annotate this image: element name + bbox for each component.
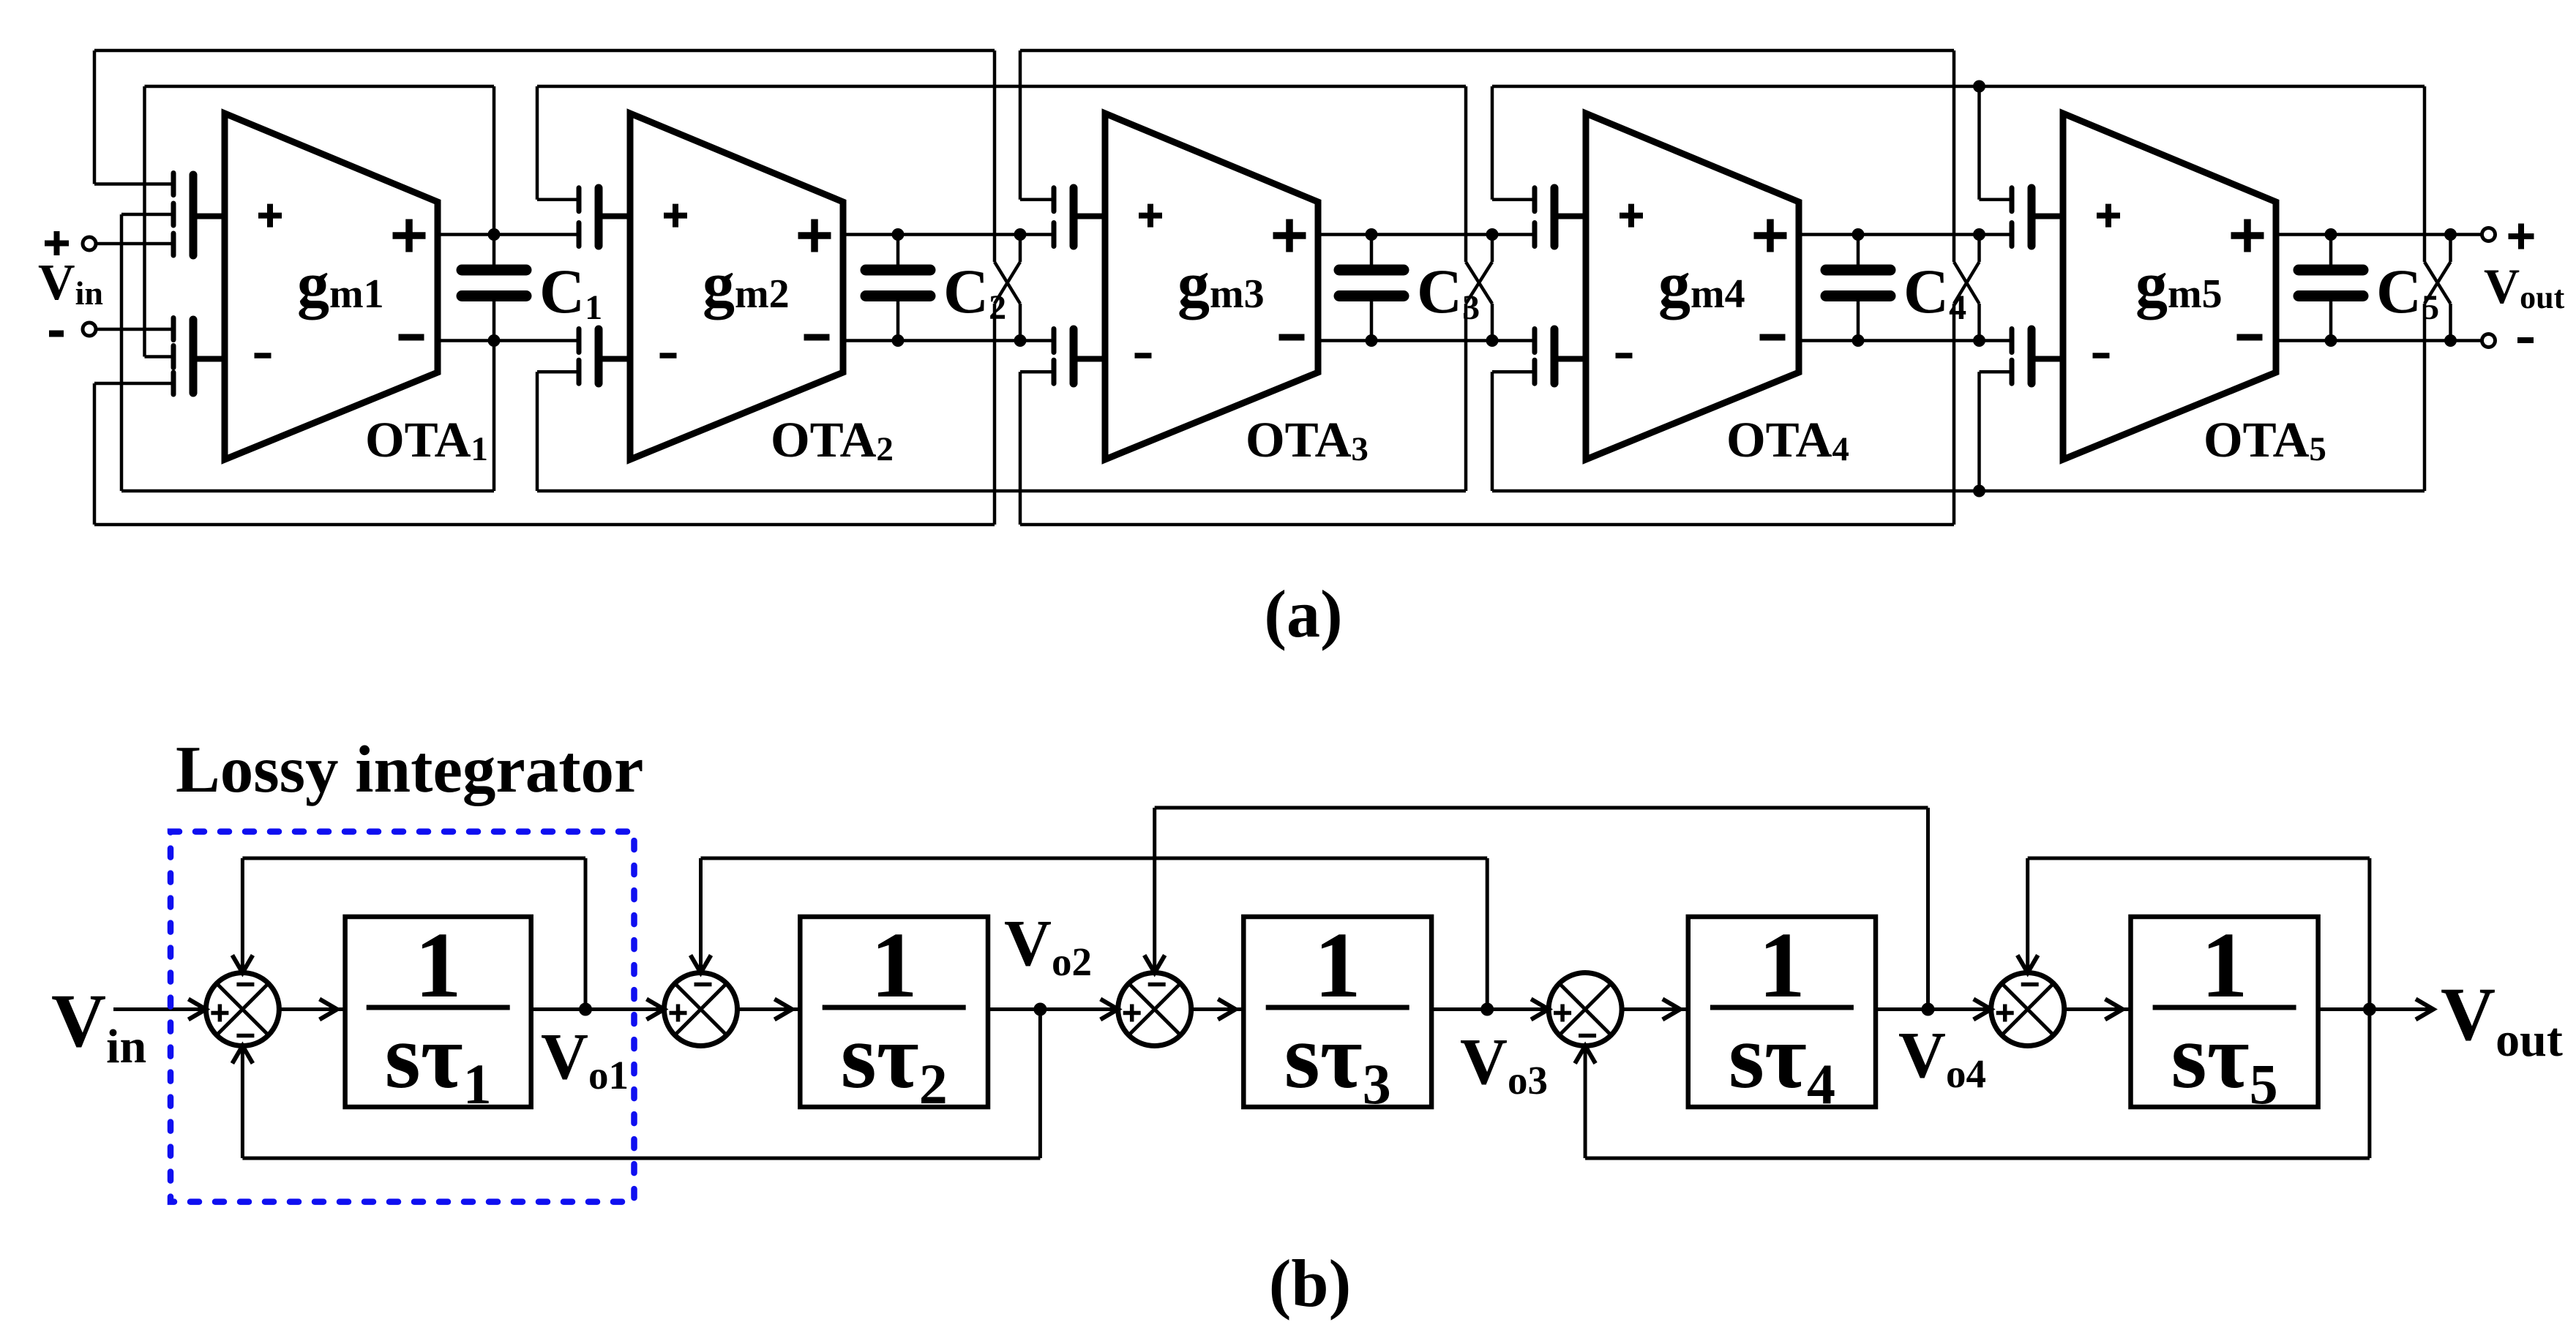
- svg-text:sτ4: sτ4: [1729, 1006, 1835, 1116]
- svg-text:Vin: Vin: [51, 979, 146, 1073]
- svg-text:gm1: gm1: [297, 249, 384, 320]
- svg-text:OTA1: OTA1: [365, 412, 488, 468]
- svg-text:Vout: Vout: [2484, 258, 2565, 315]
- svg-text:(b): (b): [1269, 1246, 1351, 1321]
- svg-text:1: 1: [871, 913, 918, 1017]
- svg-text:Vo1: Vo1: [541, 1021, 629, 1097]
- svg-text:OTA3: OTA3: [1246, 412, 1368, 468]
- svg-text:1: 1: [1314, 913, 1361, 1017]
- svg-text:1: 1: [415, 913, 462, 1017]
- svg-text:OTA2: OTA2: [771, 412, 894, 468]
- svg-text:gm3: gm3: [1177, 249, 1265, 320]
- svg-text:C5: C5: [2376, 256, 2439, 327]
- svg-text:OTA5: OTA5: [2204, 412, 2326, 468]
- svg-text:Lossy integrator: Lossy integrator: [176, 732, 643, 806]
- svg-text:Vo4: Vo4: [1898, 1019, 1986, 1096]
- svg-text:sτ5: sτ5: [2171, 1006, 2278, 1116]
- svg-text:sτ3: sτ3: [1284, 1006, 1391, 1116]
- svg-text:Vin: Vin: [38, 255, 103, 312]
- svg-text:sτ1: sτ1: [385, 1006, 492, 1116]
- svg-text:(a): (a): [1264, 577, 1342, 651]
- svg-text:gm2: gm2: [703, 249, 790, 320]
- svg-text:1: 1: [1759, 913, 1805, 1017]
- svg-text:OTA4: OTA4: [1726, 412, 1849, 468]
- svg-text:C1: C1: [539, 256, 602, 327]
- svg-text:sτ2: sτ2: [841, 1006, 948, 1116]
- svg-text:1: 1: [2201, 913, 2248, 1017]
- svg-text:gm4: gm4: [1658, 249, 1745, 320]
- svg-text:Vo2: Vo2: [1004, 907, 1092, 984]
- svg-text:Vo3: Vo3: [1460, 1026, 1548, 1103]
- svg-text:gm5: gm5: [2135, 249, 2223, 320]
- svg-text:Vout: Vout: [2441, 972, 2563, 1067]
